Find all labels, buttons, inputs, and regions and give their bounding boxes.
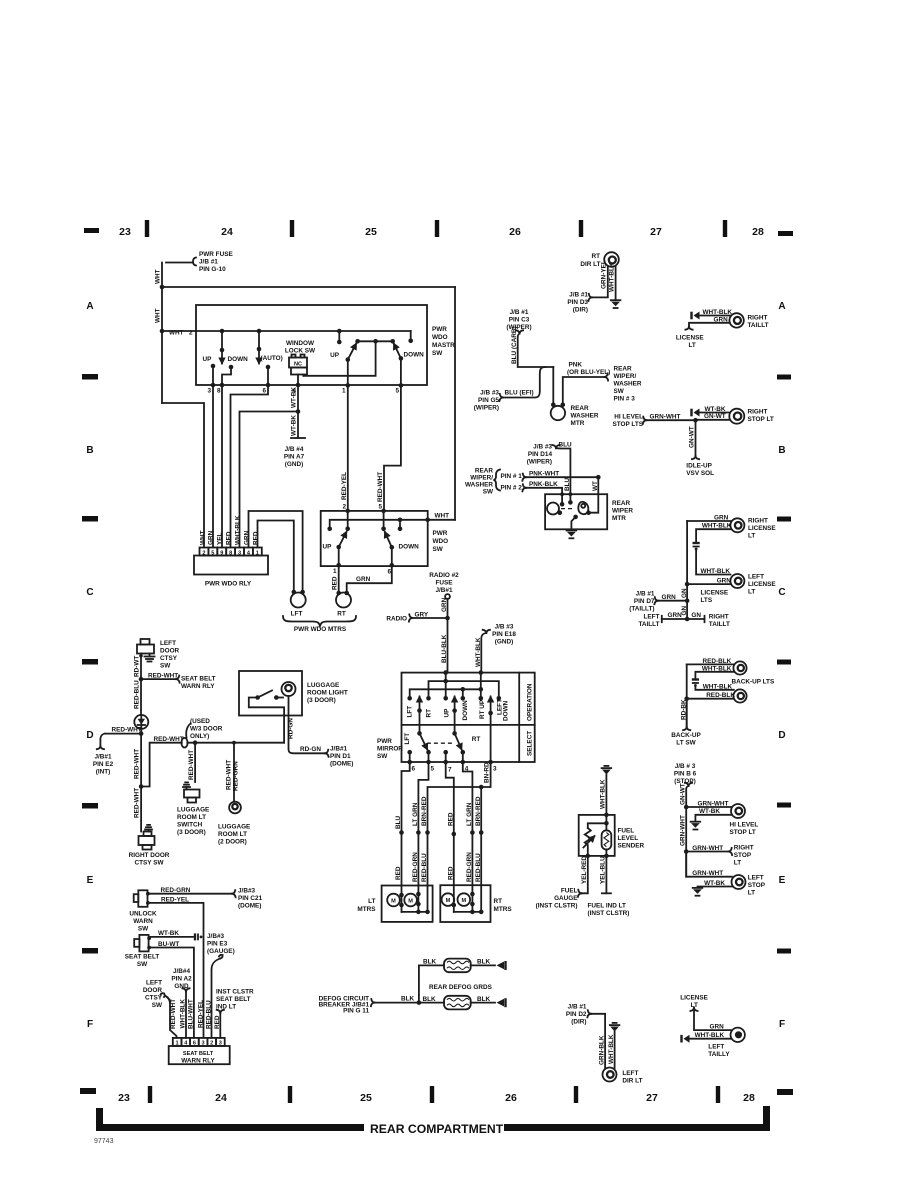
svg-text:BLU: BLU bbox=[559, 442, 573, 449]
svg-text:RIGHT: RIGHT bbox=[734, 845, 754, 852]
svg-text:DIR LT: DIR LT bbox=[622, 1078, 642, 1085]
svg-text:(WIPER): (WIPER) bbox=[506, 324, 531, 331]
svg-text:(3 DOOR): (3 DOOR) bbox=[177, 829, 206, 836]
wires inside LT box bbox=[401, 886, 403, 912]
wire GRN fuse down bbox=[447, 599, 449, 618]
node right stop tap bbox=[684, 849, 689, 854]
switch arm UP bbox=[336, 545, 341, 550]
svg-text:NC: NC bbox=[294, 361, 302, 367]
svg-text:24: 24 bbox=[215, 1092, 227, 1104]
switch arm UP right bbox=[346, 357, 351, 362]
wire RED-WHT master pin5 to sw pin5 bbox=[384, 385, 401, 511]
switch right UP contact bbox=[338, 331, 340, 342]
relay box SEAT BELT WARN RLY bbox=[169, 1046, 230, 1064]
svg-text:J/B#1: J/B#1 bbox=[94, 754, 111, 761]
svg-text:F: F bbox=[87, 1019, 93, 1030]
svg-text:J/B #1: J/B #1 bbox=[510, 309, 529, 316]
ground fuel top bbox=[604, 765, 608, 767]
svg-text:GRN: GRN bbox=[208, 530, 215, 545]
svg-text:STOP: STOP bbox=[734, 852, 752, 859]
svg-text:2: 2 bbox=[342, 504, 346, 511]
svg-text:RED: RED bbox=[253, 531, 260, 545]
svg-text:J/B #1: J/B #1 bbox=[568, 1004, 587, 1011]
svg-text:WHT: WHT bbox=[155, 308, 162, 323]
svg-text:28: 28 bbox=[743, 1092, 755, 1104]
svg-text:REAR COMPARTMENT: REAR COMPARTMENT bbox=[370, 1122, 504, 1136]
svg-text:RED-YEL: RED-YEL bbox=[341, 472, 348, 500]
svg-text:WHT-BLK: WHT-BLK bbox=[695, 1032, 725, 1039]
motor box LT MTRS bbox=[382, 886, 433, 922]
border top-right dash bbox=[778, 231, 793, 236]
svg-text:PIN E3: PIN E3 bbox=[207, 941, 228, 948]
wire WHT to fuse bbox=[166, 262, 193, 264]
svg-text:LT: LT bbox=[748, 890, 755, 897]
defog grid element 1 bbox=[444, 959, 471, 973]
brace PWR WDO MTRS bbox=[283, 616, 356, 626]
node rail dots bbox=[220, 329, 225, 334]
svg-text:GN-WT: GN-WT bbox=[689, 426, 696, 448]
lamp LEFT STOP LT bbox=[732, 875, 746, 889]
svg-text:J/B #1: J/B #1 bbox=[636, 591, 655, 598]
svg-text:J/B #1: J/B #1 bbox=[199, 259, 218, 266]
select arm 1 bbox=[420, 733, 428, 749]
contact to pin 6 bbox=[266, 365, 271, 370]
contact stub bbox=[399, 520, 401, 529]
svg-text:SW: SW bbox=[432, 350, 443, 357]
svg-text:(DIR): (DIR) bbox=[571, 1019, 586, 1026]
ground left dir lt bbox=[613, 1022, 617, 1024]
svg-text:WASHER: WASHER bbox=[465, 482, 493, 489]
svg-text:DOWN: DOWN bbox=[503, 700, 510, 721]
svg-text:WARN RLY: WARN RLY bbox=[181, 683, 215, 690]
svg-text:RED-YEL: RED-YEL bbox=[161, 896, 189, 903]
wire PNK-WHT bbox=[526, 476, 598, 478]
svg-text:VSV SOL: VSV SOL bbox=[686, 470, 714, 477]
svg-text:WHT-BLK: WHT-BLK bbox=[475, 637, 482, 667]
svg-text:BLU-BLK: BLU-BLK bbox=[441, 634, 448, 663]
svg-text:GRN-WHT: GRN-WHT bbox=[692, 870, 723, 877]
svg-text:TAILLT: TAILLT bbox=[638, 621, 659, 628]
svg-text:25: 25 bbox=[365, 226, 377, 238]
svg-text:PWR FUSE: PWR FUSE bbox=[199, 251, 233, 258]
svg-text:PIN E18: PIN E18 bbox=[492, 631, 516, 638]
svg-text:J/B #3: J/B #3 bbox=[533, 444, 552, 451]
svg-text:(DOME): (DOME) bbox=[238, 903, 261, 910]
svg-text:LT: LT bbox=[734, 860, 741, 867]
svg-text:WHT: WHT bbox=[435, 513, 450, 520]
svg-text:FUEL: FUEL bbox=[561, 888, 578, 895]
wire BU-WT to relay bbox=[149, 948, 194, 1038]
svg-text:SW: SW bbox=[433, 546, 444, 553]
wire WHT main left vertical bbox=[161, 263, 163, 404]
svg-text:3: 3 bbox=[207, 388, 211, 395]
svg-text:PWR WDO RLY: PWR WDO RLY bbox=[205, 581, 252, 588]
switch box PWR WDO MASTR SW bbox=[196, 305, 427, 385]
select arm 2 bbox=[455, 733, 462, 749]
svg-text:SW: SW bbox=[138, 926, 149, 933]
motor box REAR WIPER MTR bbox=[545, 494, 607, 529]
svg-text:BLK: BLK bbox=[401, 996, 415, 1003]
node 2-door tap bbox=[232, 741, 236, 745]
svg-text:1: 1 bbox=[342, 388, 346, 395]
svg-text:PWR WDO MTRS: PWR WDO MTRS bbox=[294, 626, 347, 633]
wire RED-WHT door to relay bbox=[161, 993, 165, 997]
svg-text:WHT-BLK: WHT-BLK bbox=[703, 309, 733, 316]
svg-text:A: A bbox=[778, 301, 785, 312]
box FUEL LEVEL SENDER bbox=[579, 815, 615, 856]
wire WT-BK to gauge bbox=[149, 936, 193, 938]
svg-text:PIN # 3: PIN # 3 bbox=[614, 396, 636, 403]
svg-text:SELECT: SELECT bbox=[527, 731, 534, 756]
svg-text:RT: RT bbox=[426, 709, 433, 718]
svg-text:7: 7 bbox=[448, 767, 452, 774]
svg-text:WT-BK: WT-BK bbox=[705, 406, 726, 413]
svg-text:RD-BK: RD-BK bbox=[680, 699, 687, 720]
motor RT mirror M1 bbox=[442, 893, 455, 906]
svg-text:LUGGAGE: LUGGAGE bbox=[307, 682, 340, 689]
svg-text:MTR: MTR bbox=[571, 420, 585, 427]
svg-text:REAR: REAR bbox=[614, 366, 632, 373]
svg-text:RED-YEL: RED-YEL bbox=[197, 1000, 204, 1028]
node defog junction bbox=[417, 1000, 422, 1005]
diode bbox=[134, 715, 148, 729]
svg-text:WHT: WHT bbox=[200, 530, 207, 545]
svg-text:LEFT: LEFT bbox=[146, 980, 162, 987]
motor wiper bbox=[547, 503, 559, 515]
svg-text:RIGHT: RIGHT bbox=[748, 315, 768, 322]
svg-text:LEFT: LEFT bbox=[622, 1070, 638, 1077]
svg-text:GRN-WHT: GRN-WHT bbox=[698, 800, 729, 807]
variable resistor fuel bbox=[585, 828, 591, 856]
svg-text:MTR: MTR bbox=[612, 515, 626, 522]
svg-text:GRN-WHT: GRN-WHT bbox=[692, 845, 723, 852]
svg-text:SEAT BELT: SEAT BELT bbox=[183, 1051, 214, 1057]
svg-text:WT-BK: WT-BK bbox=[158, 930, 179, 937]
svg-text:LICENSE: LICENSE bbox=[748, 525, 776, 532]
svg-text:LFT: LFT bbox=[407, 706, 414, 718]
svg-text:W/3 DOOR: W/3 DOOR bbox=[190, 726, 223, 733]
svg-text:(GND): (GND) bbox=[285, 461, 303, 468]
svg-text:RED-GRN: RED-GRN bbox=[232, 761, 239, 791]
node luggage switch tap bbox=[193, 740, 198, 745]
svg-text:(USED: (USED bbox=[190, 718, 210, 725]
svg-text:(WIPER): (WIPER) bbox=[527, 459, 552, 466]
switch UNLOCK WARN SW bbox=[138, 890, 147, 907]
wire RED-BLK backup 2 bbox=[687, 698, 734, 700]
svg-text:RED: RED bbox=[447, 866, 454, 880]
svg-text:J/B #3: J/B #3 bbox=[495, 624, 514, 631]
svg-text:25: 25 bbox=[360, 1092, 372, 1104]
svg-text:DOWN: DOWN bbox=[228, 356, 249, 363]
wire inner rail WHT bbox=[330, 520, 455, 529]
svg-text:E: E bbox=[87, 875, 94, 886]
svg-text:YEL-BLU: YEL-BLU bbox=[600, 856, 607, 884]
svg-text:BN-RD: BN-RD bbox=[484, 762, 491, 783]
svg-text:J/B #4: J/B #4 bbox=[285, 446, 304, 453]
svg-text:WHT-BLK: WHT-BLK bbox=[608, 1034, 615, 1064]
svg-text:D: D bbox=[86, 730, 93, 741]
wire GRN left taillt bbox=[662, 618, 687, 620]
wire YEL-RED fuel gauge bbox=[582, 856, 588, 893]
wire BLK up branch bbox=[419, 965, 444, 1002]
wire GRN-YEL bbox=[592, 267, 608, 298]
svg-text:RED-GRN: RED-GRN bbox=[412, 852, 419, 882]
wire RED ind lt to relay bbox=[217, 1010, 224, 1013]
svg-text:C: C bbox=[86, 587, 93, 598]
svg-text:MTRS: MTRS bbox=[357, 906, 376, 913]
svg-text:MASTR: MASTR bbox=[432, 342, 455, 349]
svg-text:DIR LT: DIR LT bbox=[580, 261, 600, 268]
connector SEAT BELT WARN RLY cells bbox=[173, 1038, 182, 1046]
svg-text:GN-WT: GN-WT bbox=[704, 413, 726, 420]
switch right common bar bbox=[358, 340, 393, 342]
switch arm select LFT-RT 1 bbox=[419, 698, 421, 734]
wire WT bbox=[589, 477, 599, 513]
svg-text:LEFT: LEFT bbox=[160, 640, 176, 647]
ground defog 1 bbox=[504, 961, 506, 970]
svg-text:RED-BLU: RED-BLU bbox=[421, 853, 428, 882]
wire inside luggage box bbox=[249, 698, 284, 743]
svg-text:OPERATION: OPERATION bbox=[527, 683, 534, 721]
svg-text:YEL: YEL bbox=[217, 532, 224, 545]
svg-text:TAILLY: TAILLY bbox=[708, 1051, 730, 1058]
wire WHT-BLK backup pair bbox=[695, 672, 733, 679]
svg-text:SW: SW bbox=[152, 1002, 163, 1009]
wire contact to pin 5 bbox=[400, 358, 402, 385]
wire RT UP contact feed bbox=[480, 673, 482, 699]
wire GRN-BLK bbox=[591, 1014, 605, 1068]
svg-text:28: 28 bbox=[752, 226, 764, 238]
wire RED-GRN to dome bbox=[148, 893, 232, 895]
svg-text:PIN G5: PIN G5 bbox=[478, 397, 499, 404]
wire WHT-BLK left dir bbox=[614, 1032, 616, 1069]
svg-text:RED: RED bbox=[332, 576, 339, 590]
svg-text:GRN: GRN bbox=[714, 316, 729, 323]
border bottom-left dash bbox=[80, 1088, 96, 1094]
wire WHT-BLK to ground bbox=[615, 267, 617, 300]
wire BLU CARB bbox=[516, 330, 523, 333]
svg-text:LT: LT bbox=[689, 342, 696, 349]
wire license trunk bbox=[686, 521, 688, 619]
svg-text:(AUTO): (AUTO) bbox=[261, 355, 283, 362]
wire rail A bbox=[429, 681, 499, 698]
wire BLU EFI bbox=[503, 367, 546, 398]
svg-text:RED-WHT: RED-WHT bbox=[377, 472, 384, 502]
wire UP contact feed bbox=[445, 673, 447, 699]
svg-text:(2 DOOR): (2 DOOR) bbox=[218, 839, 247, 846]
wire inner rail bbox=[162, 330, 411, 332]
svg-text:C: C bbox=[778, 587, 785, 598]
svg-text:LEFT: LEFT bbox=[748, 574, 764, 581]
svg-text:M: M bbox=[461, 898, 466, 904]
wire to pin 6 bbox=[391, 547, 393, 565]
node main rail junction bbox=[160, 285, 165, 290]
svg-text:(INT): (INT) bbox=[96, 769, 111, 776]
lamp BACK-UP LT 1 bbox=[733, 661, 746, 674]
svg-text:PIN B 6: PIN B 6 bbox=[674, 771, 697, 778]
svg-text:WARN: WARN bbox=[133, 918, 153, 925]
svg-text:97743: 97743 bbox=[94, 1138, 114, 1145]
switch SEAT BELT SW bbox=[139, 935, 148, 952]
wire to pin 1 bbox=[338, 547, 340, 565]
connector backup bbox=[692, 678, 699, 680]
wire BLK grid1 to ground bbox=[471, 964, 495, 966]
svg-text:PIN # 2: PIN # 2 bbox=[501, 485, 523, 492]
svg-text:UP: UP bbox=[323, 544, 333, 551]
svg-text:DOWN: DOWN bbox=[399, 544, 420, 551]
svg-text:M: M bbox=[446, 898, 451, 904]
svg-text:BLU: BLU bbox=[395, 815, 402, 829]
svg-text:REAR DEFOG GRDS: REAR DEFOG GRDS bbox=[429, 984, 493, 991]
switch box PWR WDO SW bbox=[321, 511, 428, 566]
svg-text:GRN: GRN bbox=[441, 597, 448, 612]
svg-text:GRN: GRN bbox=[714, 514, 729, 521]
defog grid element 2 bbox=[444, 996, 471, 1010]
wire top rail WHT bbox=[162, 286, 455, 288]
svg-text:WASHER: WASHER bbox=[614, 381, 642, 388]
motor LFT window bbox=[291, 593, 306, 608]
wire RED-WHT to luggage switch bbox=[194, 743, 196, 782]
lamp LEFT DIR LT bbox=[603, 1068, 617, 1082]
wire RED-WHT to seat belt warn rly bbox=[141, 678, 176, 680]
lamp RIGHT TAILLT bbox=[729, 313, 743, 327]
svg-text:IDLE-UP: IDLE-UP bbox=[686, 463, 712, 470]
svg-text:24: 24 bbox=[221, 226, 233, 238]
wire NC to down switch bbox=[304, 341, 376, 376]
svg-text:J/B #1: J/B #1 bbox=[569, 292, 588, 299]
ground left door sw bbox=[149, 654, 151, 657]
lamp LUGGAGE ROOM LT 2 DOOR bbox=[229, 802, 241, 814]
svg-text:LEFT: LEFT bbox=[748, 875, 764, 882]
svg-text:BU-WT: BU-WT bbox=[158, 941, 179, 948]
svg-text:26: 26 bbox=[509, 226, 521, 238]
switch contacts luggage light bbox=[255, 695, 260, 700]
svg-text:HI LEVEL: HI LEVEL bbox=[614, 413, 643, 420]
svg-text:RIGHT DOOR: RIGHT DOOR bbox=[129, 852, 170, 859]
wire RED-BLU from gauge label bbox=[219, 955, 223, 959]
wire right rail WHT bbox=[454, 287, 456, 520]
wire GRN-WHT left stop bbox=[686, 852, 732, 877]
svg-text:GN-WT: GN-WT bbox=[679, 783, 686, 805]
svg-text:BLK: BLK bbox=[477, 996, 491, 1003]
svg-text:F: F bbox=[779, 1019, 785, 1030]
motor RT mirror M2 bbox=[458, 893, 471, 906]
svg-text:RED-WHT: RED-WHT bbox=[148, 673, 178, 680]
svg-text:PIN D7: PIN D7 bbox=[634, 598, 655, 605]
svg-text:3: 3 bbox=[493, 766, 497, 773]
ground hi level stop bbox=[691, 821, 701, 823]
svg-text:WHT: WHT bbox=[155, 269, 162, 284]
svg-text:LEVEL: LEVEL bbox=[618, 835, 639, 842]
svg-text:RED-WHT: RED-WHT bbox=[188, 750, 195, 780]
svg-text:WASHER: WASHER bbox=[571, 413, 599, 420]
grid ticks bottom bbox=[148, 1086, 152, 1103]
svg-text:6: 6 bbox=[262, 388, 266, 395]
svg-text:PWR: PWR bbox=[432, 326, 447, 333]
box LUGGAGE ROOM LIGHT 3 DOOR bbox=[239, 671, 302, 716]
svg-text:GAUGE: GAUGE bbox=[554, 895, 578, 902]
svg-text:RADIO #2: RADIO #2 bbox=[429, 572, 459, 579]
wire RD-GN from lamp bbox=[289, 696, 326, 753]
svg-text:LEFT: LEFT bbox=[708, 1044, 724, 1051]
wire RED-WHT down bbox=[140, 734, 142, 787]
wire RED pin1 to RT motor bbox=[338, 565, 340, 593]
svg-text:23: 23 bbox=[119, 226, 131, 238]
switch arm DOWN bbox=[390, 545, 395, 550]
switch LUGGAGE ROOM LT SWITCH bbox=[186, 787, 188, 790]
wire BLU to wiper mtr bbox=[556, 448, 570, 494]
svg-text:PIN D3: PIN D3 bbox=[567, 299, 588, 306]
svg-text:PIN E2: PIN E2 bbox=[93, 761, 114, 768]
switch arm select 2 bbox=[454, 698, 456, 734]
svg-text:PWR: PWR bbox=[377, 738, 392, 745]
switch arm UP (auto) left bbox=[221, 331, 223, 350]
svg-text:PIN G 11: PIN G 11 bbox=[343, 1008, 369, 1015]
switch WINDOW LOCK NC bbox=[289, 358, 307, 368]
svg-text:LICENSE: LICENSE bbox=[748, 581, 776, 588]
wire BN-RD pin3 branch bbox=[428, 762, 491, 886]
wire WHT-BLK to backup 2 bbox=[695, 686, 733, 690]
svg-text:RADIO: RADIO bbox=[386, 616, 407, 623]
svg-text:A: A bbox=[86, 301, 93, 312]
wire GRN left license bbox=[687, 583, 730, 585]
svg-text:SEAT BELT: SEAT BELT bbox=[216, 996, 251, 1003]
svg-text:GRN: GRN bbox=[668, 612, 683, 619]
svg-text:LEFT: LEFT bbox=[644, 614, 660, 621]
svg-text:LICENSE: LICENSE bbox=[676, 335, 704, 342]
wire RED-WHT to right door sw bbox=[140, 787, 142, 832]
svg-text:IND LT: IND LT bbox=[216, 1004, 236, 1011]
svg-text:RED-GRN: RED-GRN bbox=[466, 852, 473, 882]
svg-text:RT: RT bbox=[337, 611, 346, 618]
svg-text:RT: RT bbox=[591, 253, 600, 260]
wire GRN pin6 to RT motor bbox=[347, 565, 392, 593]
svg-text:PNK: PNK bbox=[569, 362, 583, 369]
wire GN right taillt bbox=[687, 618, 704, 620]
wire wiper park contact bbox=[571, 517, 575, 529]
svg-text:SEAT BELT: SEAT BELT bbox=[181, 676, 216, 683]
svg-text:RED-WHT: RED-WHT bbox=[134, 749, 141, 779]
brace wiper sw pins bbox=[494, 470, 501, 491]
node taillt feed bbox=[685, 598, 690, 603]
wire GN-WT to idle-up bbox=[695, 420, 697, 456]
wire GN-WT bbox=[696, 419, 730, 421]
wire WHT main to relay cell 2 bbox=[162, 403, 204, 548]
wire WT-BK pin4 to ground bbox=[297, 385, 299, 438]
wire RD-BK to backup sw bbox=[686, 699, 688, 727]
svg-text:LUGGAGE: LUGGAGE bbox=[218, 824, 251, 831]
motor LT mirror M1 bbox=[387, 894, 400, 907]
wire GRN left tailly bbox=[694, 1011, 731, 1031]
svg-text:RED: RED bbox=[447, 812, 454, 826]
svg-text:J/B # 3: J/B # 3 bbox=[675, 763, 696, 770]
svg-text:RED-BLU: RED-BLU bbox=[205, 1000, 212, 1029]
wire RED pin6 to relay bbox=[231, 385, 269, 548]
svg-text:ROOM LIGHT: ROOM LIGHT bbox=[307, 690, 348, 697]
border bottom-right dash bbox=[777, 1089, 793, 1095]
svg-text:UP: UP bbox=[203, 356, 213, 363]
ground wiper mtr bbox=[567, 530, 577, 532]
svg-text:RT: RT bbox=[472, 736, 481, 743]
svg-text:RED-BLU: RED-BLU bbox=[475, 853, 482, 882]
svg-text:WDO: WDO bbox=[433, 538, 449, 545]
svg-text:J/B #3: J/B #3 bbox=[480, 390, 499, 397]
wire RED-YEL master pin1 to sw pin2 bbox=[347, 385, 349, 511]
svg-text:(TAILLT): (TAILLT) bbox=[629, 606, 654, 613]
select contacts bbox=[407, 750, 412, 755]
svg-text:WHT-BLK: WHT-BLK bbox=[701, 568, 731, 575]
svg-text:J/B#1: J/B#1 bbox=[330, 746, 347, 753]
